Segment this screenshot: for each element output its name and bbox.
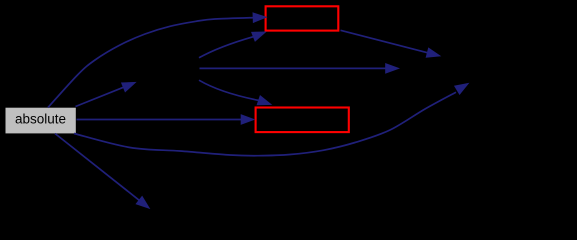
arrowhead into box1 bottom-left corner — [251, 26, 269, 41]
edge absolute->box2 (horizontal) — [77, 119, 243, 121]
arrowhead at hidden right node (from bottom curve) — [454, 78, 472, 95]
arrowhead at hidden mid-left node — [121, 77, 139, 93]
edge absolute->hidden node right (long bottom curve) — [74, 92, 456, 156]
arrowhead at hidden far right node (from box1) — [426, 47, 443, 61]
edge hidden mid node->box2 corner — [199, 80, 260, 100]
arrowhead into box2 left edge — [241, 114, 256, 125]
edge absolute->hidden node bottom — [55, 134, 140, 201]
arrowhead into box1 left edge — [253, 12, 268, 23]
arrowhead into box2 top-left corner — [257, 95, 274, 110]
edge hidden mid node->hidden right node (horizontal) — [200, 67, 387, 69]
edge hidden mid node->box1 corner — [199, 36, 254, 57]
edge box1->hidden right node — [341, 30, 429, 53]
arrowhead at hidden right node (horizontal) — [385, 63, 400, 74]
svg-text:absolute: absolute — [15, 112, 66, 127]
edge absolute->hidden node mid-left — [76, 87, 125, 106]
arrowhead at hidden bottom node — [135, 196, 153, 214]
node absolute (current function, grey) — [6, 108, 76, 134]
node box2 (red-bordered, truncated node) — [256, 108, 349, 133]
edge absolute->box1 (curved) — [48, 18, 254, 108]
node box1 (red-bordered, truncated node) — [266, 6, 339, 30]
